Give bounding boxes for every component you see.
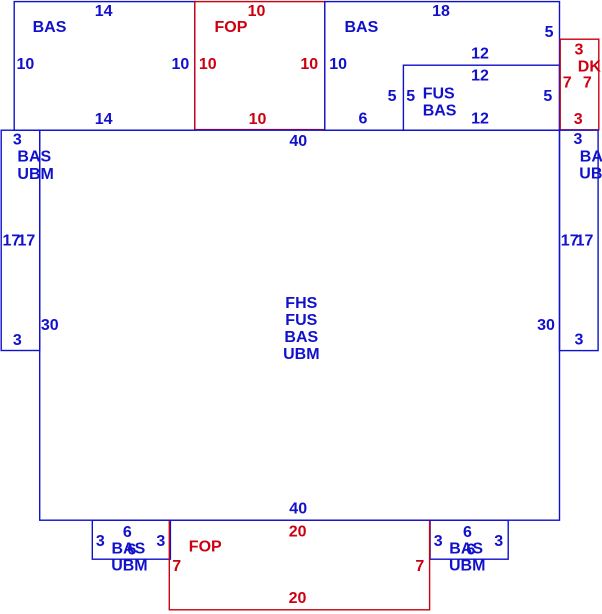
svg-text:6: 6 (123, 524, 132, 541)
svg-text:7: 7 (415, 558, 424, 575)
svg-text:5: 5 (388, 88, 397, 105)
panel DK rect (560, 39, 599, 130)
svg-text:10: 10 (300, 56, 318, 73)
panel BAS top-left rect (14, 2, 195, 131)
svg-text:6: 6 (359, 110, 368, 127)
svg-text:BAS: BAS (17, 149, 51, 166)
svg-text:6: 6 (463, 524, 472, 541)
svg-text:7: 7 (172, 558, 181, 575)
svg-text:12: 12 (471, 45, 489, 62)
svg-text:5: 5 (545, 24, 554, 41)
svg-text:10: 10 (329, 56, 347, 73)
svg-text:14: 14 (95, 111, 113, 128)
svg-text:18: 18 (432, 3, 450, 20)
svg-text:FOP: FOP (189, 538, 222, 555)
svg-text:3: 3 (96, 533, 105, 550)
svg-text:17: 17 (18, 232, 36, 249)
svg-text:20: 20 (289, 523, 307, 540)
svg-text:40: 40 (289, 133, 307, 150)
svg-text:10: 10 (199, 56, 217, 73)
panel bottom-left BAS UBM rect (92, 520, 170, 559)
svg-text:FHS: FHS (285, 295, 317, 312)
svg-text:3: 3 (13, 332, 22, 349)
svg-text:5: 5 (543, 88, 552, 105)
svg-text:10: 10 (17, 56, 35, 73)
panel bottom-right BAS UBM rect (430, 520, 508, 559)
svg-text:10: 10 (172, 56, 190, 73)
svg-text:BAS: BAS (33, 19, 67, 36)
svg-text:BAS: BAS (580, 148, 602, 165)
svg-text:10: 10 (248, 3, 266, 20)
svg-text:3: 3 (13, 131, 22, 148)
svg-text:30: 30 (537, 317, 555, 334)
svg-text:FUS: FUS (285, 312, 317, 329)
panel main body FHS FUS BAS UBM (40, 130, 560, 520)
svg-text:6: 6 (127, 542, 136, 559)
svg-text:40: 40 (289, 500, 307, 517)
svg-text:20: 20 (289, 590, 307, 607)
svg-text:14: 14 (95, 3, 113, 20)
svg-text:30: 30 (41, 317, 59, 334)
svg-text:10: 10 (249, 111, 267, 128)
svg-text:UBM: UBM (111, 558, 147, 575)
svg-text:BAS: BAS (345, 19, 379, 36)
svg-text:7: 7 (583, 74, 592, 91)
svg-text:UBM: UBM (579, 166, 602, 183)
svg-text:3: 3 (575, 42, 584, 59)
svg-text:12: 12 (471, 67, 489, 84)
svg-text:12: 12 (471, 110, 489, 127)
panel FOP bottom rect (169, 520, 429, 610)
svg-text:3: 3 (574, 131, 583, 148)
svg-text:5: 5 (406, 88, 415, 105)
panel right strip BAS UBM (560, 130, 599, 350)
svg-text:UBM: UBM (17, 166, 53, 183)
panel FUS BAS rect (403, 65, 559, 130)
svg-text:3: 3 (156, 533, 165, 550)
svg-text:3: 3 (434, 533, 443, 550)
panel FOP top rect (195, 2, 325, 130)
svg-text:UBM: UBM (449, 558, 485, 575)
svg-text:3: 3 (494, 533, 503, 550)
svg-text:3: 3 (574, 111, 583, 128)
svg-text:7: 7 (563, 74, 572, 91)
svg-text:UBM: UBM (283, 346, 319, 363)
svg-text:DK: DK (578, 59, 602, 76)
panel left strip BAS UBM (1, 130, 40, 350)
svg-text:BAS: BAS (423, 102, 457, 119)
svg-text:BAS: BAS (284, 329, 318, 346)
svg-text:3: 3 (575, 332, 584, 349)
panel BAS top-right rect (325, 2, 560, 131)
svg-text:6: 6 (466, 542, 475, 559)
svg-text:FUS: FUS (423, 85, 455, 102)
svg-text:17: 17 (576, 232, 594, 249)
svg-text:FOP: FOP (215, 19, 248, 36)
